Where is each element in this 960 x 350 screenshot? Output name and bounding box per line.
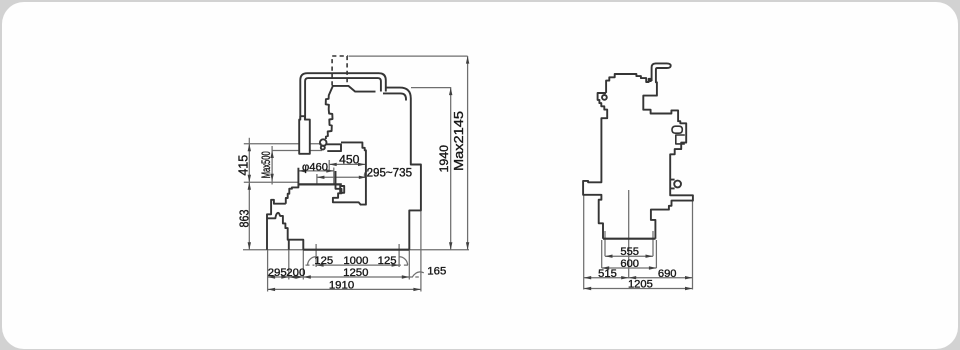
svg-text:φ460: φ460 <box>302 162 328 174</box>
svg-text:125: 125 <box>378 255 397 267</box>
svg-text:1910: 1910 <box>329 280 354 292</box>
svg-text:Max2145: Max2145 <box>451 111 466 171</box>
svg-text:1940: 1940 <box>437 145 451 173</box>
svg-text:295~735: 295~735 <box>367 166 412 179</box>
svg-text:450: 450 <box>339 152 360 166</box>
svg-text:515: 515 <box>598 268 617 280</box>
svg-text:295: 295 <box>268 267 287 279</box>
svg-text:1000: 1000 <box>343 255 368 267</box>
svg-text:600: 600 <box>620 258 639 270</box>
svg-text:1205: 1205 <box>628 279 653 291</box>
svg-text:Max500: Max500 <box>261 151 273 178</box>
svg-text:125: 125 <box>314 255 333 267</box>
svg-text:415: 415 <box>236 155 250 176</box>
svg-text:863: 863 <box>237 209 251 227</box>
svg-text:200: 200 <box>286 267 305 279</box>
svg-text:165: 165 <box>427 266 446 278</box>
svg-text:1250: 1250 <box>343 267 368 279</box>
svg-text:690: 690 <box>658 268 677 280</box>
svg-text:555: 555 <box>620 246 639 258</box>
